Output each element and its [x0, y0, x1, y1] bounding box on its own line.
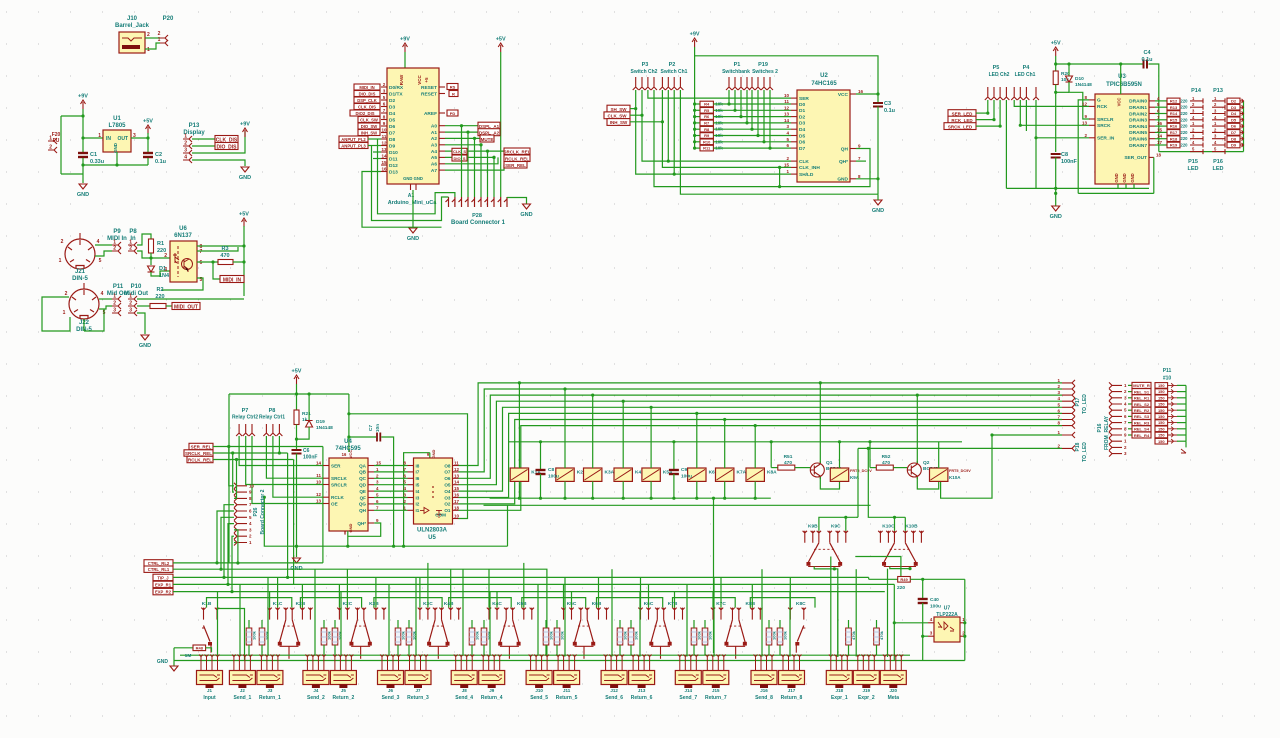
wire A0	[445, 125, 478, 127]
wire feeds	[419, 577, 421, 607]
svg-text:DRAIN6: DRAIN6	[1129, 137, 1147, 143]
wire	[938, 442, 940, 468]
svg-text:220: 220	[1181, 117, 1189, 122]
connector J10 Barrel_Jack	[119, 32, 145, 53]
svg-text:C9: C9	[681, 467, 687, 473]
svg-text:R5: R5	[704, 108, 710, 113]
connector J20 Meta jack	[880, 671, 906, 685]
power +5V	[1053, 47, 1058, 56]
wire rail C	[484, 504, 871, 506]
net label DSPL_A2	[478, 129, 500, 136]
LED row 5	[1155, 407, 1168, 413]
svg-text:74HC165: 74HC165	[811, 81, 837, 87]
svg-text:12: 12	[316, 492, 322, 497]
wire	[228, 524, 234, 585]
svg-text:ULN2803A: ULN2803A	[417, 528, 448, 534]
capacitor C9 100u	[673, 442, 675, 470]
svg-text:J16: J16	[760, 688, 768, 693]
svg-text:0.1u: 0.1u	[155, 159, 166, 165]
wire	[694, 47, 696, 148]
shift register U2 74HC165	[797, 90, 850, 182]
wire	[987, 100, 989, 113]
svg-text:TIP_J: TIP_J	[157, 575, 169, 580]
wire riser	[564, 389, 566, 468]
net label CLK_DIS	[215, 136, 238, 143]
svg-text:D0: D0	[799, 102, 805, 108]
svg-text:150: 150	[1158, 389, 1165, 394]
svg-text:L7805: L7805	[108, 123, 126, 129]
svg-text:GND: GND	[348, 523, 353, 532]
wire	[1177, 397, 1186, 399]
svg-text:+5V: +5V	[239, 212, 249, 218]
svg-text:J4: J4	[313, 688, 319, 693]
svg-text:SRCLR: SRCLR	[1097, 117, 1114, 123]
svg-text:+5: +5	[424, 77, 429, 83]
svg-text:R13: R13	[1170, 105, 1178, 110]
net label ANPUT_PL2	[339, 136, 368, 142]
svg-text:7: 7	[383, 108, 386, 113]
wire	[713, 128, 791, 130]
svg-text:12: 12	[1082, 101, 1088, 106]
wire	[151, 257, 170, 259]
svg-text:P14: P14	[1191, 88, 1202, 94]
net label REL_R3	[1128, 422, 1132, 424]
svg-text:D5: D5	[1231, 117, 1237, 122]
wire pin P13r	[1212, 98, 1225, 103]
svg-text:2: 2	[164, 253, 167, 259]
wire VCC	[856, 93, 878, 95]
svg-text:150: 150	[1158, 433, 1165, 438]
svg-text:10: 10	[784, 93, 790, 98]
svg-text:REL_R4: REL_R4	[1134, 433, 1150, 438]
net label DIO_DIS	[215, 143, 238, 150]
svg-text:11: 11	[784, 99, 789, 104]
svg-text:C2: C2	[155, 152, 162, 158]
svg-text:CLK_S: CLK_S	[453, 149, 466, 154]
svg-text:220: 220	[897, 585, 905, 591]
svg-text:C40: C40	[930, 597, 939, 603]
svg-text:QH*: QH*	[839, 159, 848, 165]
svg-text:LED Ch1: LED Ch1	[1015, 72, 1036, 78]
svg-text:100k: 100k	[708, 630, 713, 640]
relay coil K10A	[930, 468, 948, 481]
wire	[243, 226, 245, 296]
svg-text:REL_R2: REL_R2	[1134, 408, 1150, 413]
wire pin P13r	[1212, 105, 1225, 110]
svg-text:MUTE_R: MUTE_R	[1133, 383, 1150, 388]
svg-text:D5: D5	[389, 117, 395, 123]
connector P21 fuse	[48, 138, 57, 144]
svg-text:SRCLK: SRCLK	[331, 476, 348, 481]
resistor R17 220	[1155, 131, 1167, 133]
wire A2	[445, 137, 480, 139]
svg-text:+9V: +9V	[690, 32, 700, 38]
svg-text:CLK_SW: CLK_SW	[360, 117, 378, 122]
svg-text:13: 13	[381, 147, 387, 152]
wire	[480, 145, 482, 197]
wire rail2	[173, 569, 547, 656]
svg-text:O5: O5	[444, 483, 451, 488]
svg-text:D11: D11	[389, 156, 398, 162]
connector P26 Board Connector 2	[234, 483, 247, 489]
svg-text:100u: 100u	[681, 474, 692, 480]
svg-text:6: 6	[1124, 414, 1127, 419]
svg-text:3: 3	[1057, 390, 1060, 395]
wire	[500, 52, 502, 197]
svg-text:R4: R4	[704, 102, 710, 107]
resistor R20 10k	[1053, 71, 1058, 85]
wire pin P13r	[1212, 111, 1225, 116]
svg-text:4: 4	[786, 131, 789, 136]
svg-text:1: 1	[1192, 121, 1195, 126]
net label MIDI_IN	[354, 84, 380, 90]
wire rail B	[490, 497, 771, 499]
svg-text:C8: C8	[1061, 152, 1068, 158]
svg-text:3: 3	[383, 89, 386, 94]
svg-text:FROM_RELAY: FROM_RELAY	[1104, 415, 1110, 450]
wire	[61, 173, 83, 175]
diode D1 1N4148	[148, 266, 155, 272]
svg-text:C4: C4	[1143, 50, 1151, 56]
svg-text:R11: R11	[703, 146, 711, 151]
wire	[493, 157, 495, 197]
wire	[868, 577, 870, 579]
svg-text:13: 13	[316, 499, 322, 504]
svg-text:D4: D4	[1231, 111, 1237, 116]
wire A7	[445, 165, 504, 171]
svg-text:U7: U7	[944, 606, 951, 612]
wire A1	[445, 131, 478, 133]
svg-text:GND: GND	[157, 659, 169, 665]
net label RST	[447, 84, 458, 90]
wire pin P14	[1190, 136, 1203, 141]
svg-text:OE: OE	[331, 501, 338, 506]
svg-text:4: 4	[97, 239, 100, 245]
wire pin P14	[1190, 130, 1203, 135]
svg-text:100k: 100k	[338, 630, 343, 640]
wire	[1177, 415, 1186, 417]
wire	[397, 620, 399, 628]
wire	[630, 620, 632, 628]
svg-text:100k: 100k	[487, 630, 492, 640]
svg-text:6: 6	[786, 143, 789, 148]
svg-text:5: 5	[376, 493, 379, 498]
wire	[734, 90, 736, 110]
svg-text:P17: P17	[1075, 397, 1081, 406]
svg-text:INH_SW: INH_SW	[610, 120, 628, 125]
wire pin P14	[1190, 117, 1203, 122]
wire	[278, 436, 280, 453]
svg-text:P8: P8	[269, 408, 276, 414]
wire	[145, 37, 160, 39]
wire	[137, 313, 145, 334]
wire contact loop K10	[868, 448, 905, 517]
wire gnd stubs	[1117, 184, 1119, 188]
svg-text:DRAIN2: DRAIN2	[1129, 111, 1147, 117]
svg-text:Expr_2: Expr_2	[858, 695, 875, 701]
svg-text:TPIC6B595N: TPIC6B595N	[1106, 82, 1142, 88]
svg-text:J1: J1	[207, 688, 213, 693]
relay coil K6A	[688, 468, 706, 481]
svg-text:Meta: Meta	[888, 695, 900, 701]
svg-text:100u: 100u	[930, 604, 941, 610]
svg-text:1: 1	[1057, 430, 1060, 435]
svg-text:2: 2	[1057, 384, 1060, 389]
svg-text:9: 9	[858, 144, 861, 149]
svg-text:D6: D6	[1231, 124, 1237, 129]
resistor 100k jack pulldown	[691, 628, 697, 645]
connector P16 FROM_RELAY	[1109, 382, 1122, 388]
svg-text:Switch Ch2: Switch Ch2	[631, 69, 658, 75]
svg-text:D7: D7	[389, 130, 395, 136]
wire	[893, 584, 895, 660]
svg-text:Switchbank: Switchbank	[722, 69, 750, 75]
svg-text:16: 16	[858, 89, 864, 94]
resistor R14 220	[1155, 113, 1167, 115]
svg-text:100k: 100k	[265, 630, 270, 640]
svg-text:100k: 100k	[252, 630, 257, 640]
wire pin P13r	[1212, 124, 1225, 129]
wire	[768, 620, 770, 628]
svg-text:R48: R48	[196, 645, 204, 650]
svg-text:220: 220	[155, 294, 164, 300]
svg-text:QH: QH	[359, 508, 367, 513]
svg-text:2: 2	[249, 534, 252, 539]
svg-text:J9: J9	[489, 688, 495, 693]
wire A5	[445, 156, 494, 158]
resistor R12 220	[1155, 100, 1167, 102]
svg-text:P18: P18	[1075, 442, 1081, 451]
svg-text:K2B: K2B	[296, 601, 306, 607]
wire	[893, 467, 907, 469]
wire pin P13r	[1212, 143, 1225, 148]
net label CTRL_RL1	[144, 566, 173, 572]
svg-text:150: 150	[1158, 402, 1165, 407]
resistor R6 10k	[695, 116, 700, 118]
svg-text:12: 12	[381, 141, 387, 146]
svg-text:P16: P16	[1213, 159, 1223, 165]
wire RCLK row	[273, 436, 323, 497]
wire SRCK row	[1020, 100, 1089, 125]
wire emitter	[820, 477, 839, 489]
svg-text:VCC: VCC	[838, 92, 849, 98]
svg-text:MIDI_OUT: MIDI_OUT	[174, 304, 198, 310]
wire	[197, 247, 238, 251]
svg-text:LED: LED	[1213, 166, 1224, 172]
svg-text:J12: J12	[610, 688, 618, 693]
svg-text:DSP_CLK: DSP_CLK	[357, 98, 377, 103]
svg-text:16: 16	[1157, 121, 1163, 126]
svg-text:Return_8: Return_8	[781, 695, 803, 701]
svg-text:O4: O4	[444, 489, 451, 494]
svg-text:12: 12	[784, 105, 790, 110]
wire	[248, 620, 250, 628]
wire - output rail	[131, 137, 148, 139]
svg-text:7: 7	[403, 467, 406, 472]
svg-text:QE: QE	[359, 489, 366, 494]
connector J8 Send_4 jack	[451, 671, 477, 685]
svg-text:P16: P16	[1097, 423, 1103, 432]
wire	[234, 460, 237, 499]
svg-text:1N4148: 1N4148	[1075, 82, 1092, 88]
svg-text:D4: D4	[799, 127, 805, 133]
wire	[137, 305, 150, 307]
wire	[82, 109, 84, 152]
svg-text:+5V: +5V	[292, 369, 302, 375]
svg-text:J7: J7	[415, 688, 421, 693]
svg-text:P11: P11	[113, 284, 124, 290]
svg-text:MIDI_IN: MIDI_IN	[223, 277, 242, 283]
svg-text:A2: A2	[431, 136, 437, 142]
wire	[322, 447, 324, 563]
svg-text:DRAIN4: DRAIN4	[1129, 124, 1147, 130]
capacitor C6 100nF	[292, 450, 302, 454]
svg-text:2: 2	[1214, 102, 1217, 107]
svg-text:7: 7	[1157, 115, 1160, 120]
wire QHp	[348, 523, 381, 536]
wire	[162, 278, 203, 290]
wire	[779, 620, 781, 628]
svg-text:FU: FU	[53, 138, 60, 144]
wire feeds	[563, 584, 565, 607]
wire	[757, 90, 759, 136]
ground	[409, 228, 417, 233]
svg-text:3: 3	[786, 124, 789, 129]
wire	[839, 462, 841, 468]
wire	[137, 251, 151, 258]
wire	[234, 542, 236, 544]
svg-text:3: 3	[164, 267, 167, 273]
svg-text:6: 6	[1057, 408, 1060, 413]
wire dropper	[650, 481, 652, 498]
svg-text:INH_SW: INH_SW	[361, 130, 377, 135]
svg-text:VCC: VCC	[417, 75, 422, 85]
wire	[1055, 158, 1057, 207]
svg-text:A1: A1	[431, 130, 437, 136]
svg-text:J21: J21	[75, 269, 86, 275]
wire	[999, 100, 1001, 126]
svg-text:8: 8	[1057, 421, 1060, 426]
wire	[487, 151, 489, 197]
svg-text:7: 7	[200, 249, 203, 255]
darlington array U5 ULN2803A	[414, 458, 453, 524]
wire	[507, 505, 509, 546]
svg-text:220: 220	[1181, 98, 1189, 103]
resistor 100k jack pulldown	[702, 628, 708, 645]
svg-text:220: 220	[1181, 105, 1189, 110]
svg-text:R18: R18	[1170, 136, 1178, 141]
LED row 8	[1155, 426, 1168, 432]
svg-text:SRCK: SRCK	[1097, 123, 1111, 129]
svg-text:7: 7	[1124, 420, 1127, 425]
svg-text:O6: O6	[444, 476, 451, 481]
svg-text:4: 4	[1192, 115, 1195, 120]
svg-text:470: 470	[220, 253, 229, 259]
svg-text:+9V: +9V	[78, 94, 88, 100]
wire	[471, 620, 473, 628]
svg-text:K8B: K8B	[745, 601, 755, 607]
power +5V	[294, 375, 299, 384]
svg-text:U4: U4	[344, 439, 352, 445]
svg-text:K7B: K7B	[668, 601, 678, 607]
svg-text:4: 4	[376, 486, 379, 491]
wire gnd rail bottom	[174, 660, 965, 662]
wire	[556, 620, 558, 628]
svg-text:4: 4	[1124, 402, 1127, 407]
wire	[224, 505, 234, 578]
LED row 3	[1155, 395, 1168, 401]
svg-text:R1: R1	[157, 241, 164, 247]
svg-text:150: 150	[1158, 414, 1165, 419]
diode bottom marks	[1181, 398, 1186, 453]
svg-text:D10: D10	[1075, 76, 1084, 82]
connector P18 TO_LED	[1062, 432, 1075, 438]
wire pin P14	[1190, 111, 1203, 116]
svg-text:2: 2	[786, 156, 789, 161]
svg-text:5: 5	[99, 258, 102, 264]
svg-text:16: 16	[381, 167, 387, 172]
svg-text:GND: GND	[113, 142, 118, 153]
wire U7 right rail	[964, 579, 966, 660]
net label AREF	[447, 110, 458, 116]
svg-text:ANPUT_PL2: ANPUT_PL2	[341, 137, 366, 142]
svg-text:G: G	[1097, 98, 1101, 104]
svg-text:A6: A6	[431, 162, 437, 168]
wire riser	[724, 420, 726, 469]
svg-text:I7: I7	[416, 470, 420, 475]
svg-text:SER: SER	[799, 96, 809, 102]
svg-text:P10: P10	[131, 284, 142, 290]
svg-text:6: 6	[383, 102, 386, 107]
capacitor C4 0.1u	[1144, 60, 1148, 69]
wire dropper	[622, 481, 624, 498]
svg-text:DRAIN5: DRAIN5	[1129, 130, 1147, 136]
wire	[99, 298, 112, 300]
net label RCLK_REL	[504, 155, 530, 162]
wire	[1185, 441, 1187, 447]
svg-text:2: 2	[1057, 443, 1060, 448]
svg-text:2: 2	[113, 301, 116, 307]
svg-text:3: 3	[184, 148, 187, 154]
svg-text:RAW: RAW	[399, 74, 404, 85]
svg-text:100k: 100k	[634, 630, 639, 640]
svg-text:3: 3	[403, 493, 406, 498]
svg-text:DIO_DIS: DIO_DIS	[359, 91, 376, 96]
svg-text:220: 220	[1181, 136, 1189, 141]
wire	[673, 90, 675, 174]
wire dropper	[724, 481, 726, 498]
wire left drop	[228, 394, 230, 563]
wire pin P14	[1190, 105, 1203, 110]
resistor R4 10k	[695, 103, 700, 105]
wire U7 left	[894, 622, 928, 624]
svg-text:GND: GND	[872, 208, 884, 214]
connector P20	[160, 35, 168, 41]
svg-text:D2: D2	[799, 114, 805, 120]
net label SRCLK_REL	[184, 450, 213, 456]
svg-text:J20: J20	[890, 688, 898, 693]
svg-text:D1/TX: D1/TX	[389, 91, 403, 97]
svg-text:18: 18	[1156, 152, 1162, 157]
svg-text:D9: D9	[389, 143, 395, 149]
svg-text:2: 2	[129, 301, 132, 307]
svg-text:GND: GND	[1122, 173, 1127, 182]
wire	[95, 251, 112, 256]
svg-text:4: 4	[184, 155, 187, 161]
svg-text:GND: GND	[77, 192, 89, 198]
svg-text:REL_S1: REL_S1	[1134, 389, 1150, 394]
wire	[217, 511, 234, 563]
